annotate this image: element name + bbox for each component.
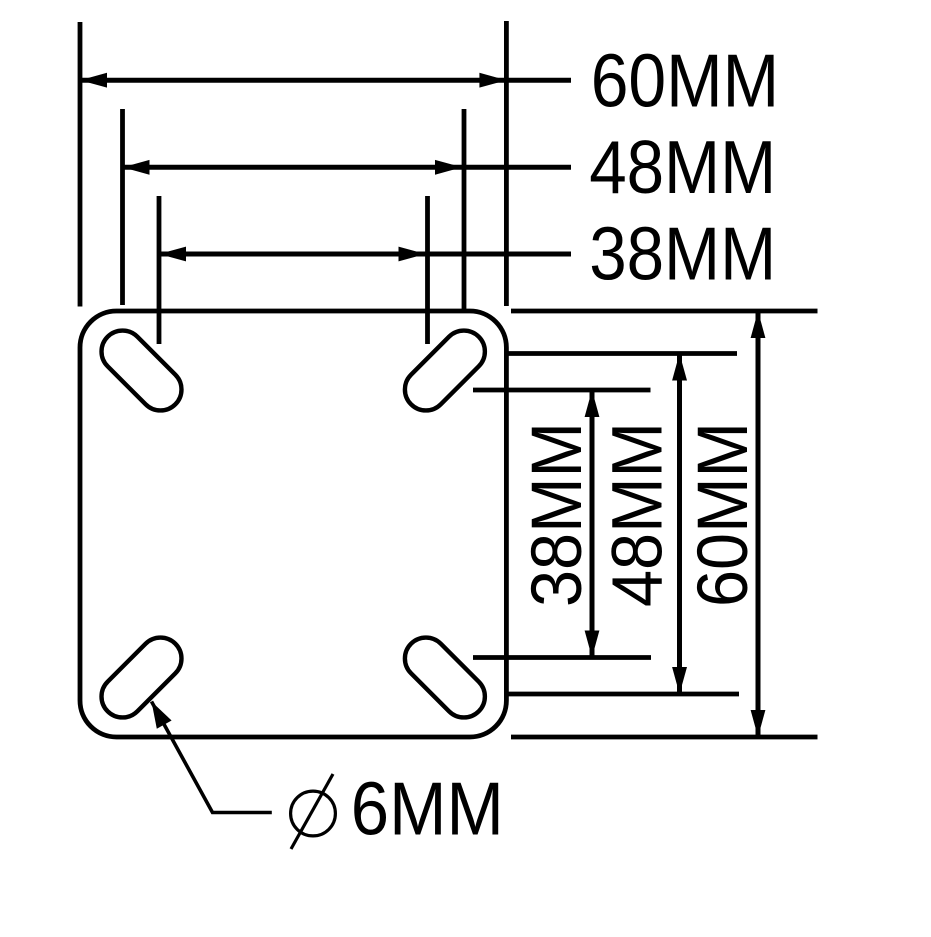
leader line to hole <box>152 702 272 813</box>
svg-text:38MM: 38MM <box>589 212 776 296</box>
diameter symbol slash <box>291 774 333 849</box>
reference line 48MM bottom right <box>507 692 739 697</box>
arrowhead 60MM down <box>751 710 766 737</box>
reference line 60MM bottom right <box>511 735 818 740</box>
dimension line 38MM vertical <box>590 390 595 658</box>
slot hole bottom-right <box>396 629 493 726</box>
dimension line 60MM horizontal <box>80 78 571 83</box>
leader arrowhead <box>152 702 172 729</box>
slot hole bottom-left <box>93 629 190 726</box>
svg-text:48MM: 48MM <box>599 422 678 607</box>
dimension line 48MM vertical <box>677 354 682 695</box>
extension line right 38MM <box>425 196 430 344</box>
diameter symbol circle <box>291 791 336 836</box>
arrowhead 48MM up <box>672 354 687 381</box>
reference line 48MM top right <box>507 351 737 356</box>
dimension line 38MM horizontal <box>159 252 571 257</box>
dimension line 60MM vertical <box>756 311 761 737</box>
arrowhead 48MM down <box>672 667 687 694</box>
arrowhead 48MM right <box>435 160 462 175</box>
arrowhead 38MM right <box>399 247 426 262</box>
reference line 38MM top right <box>473 388 651 393</box>
dimension line 48MM horizontal <box>123 165 572 170</box>
reference line 60MM top right <box>511 309 818 314</box>
plate outline <box>80 311 506 737</box>
arrowhead 48MM left <box>123 160 150 175</box>
extension line right 60MM <box>504 21 509 306</box>
svg-text:60MM: 60MM <box>591 38 780 122</box>
svg-text:38MM: 38MM <box>518 422 597 607</box>
extension line left 38MM <box>157 196 162 344</box>
svg-text:60MM: 60MM <box>684 422 763 607</box>
extension line left 48MM <box>120 109 125 305</box>
arrowhead 38MM up <box>585 390 600 417</box>
extension line right 48MM <box>462 109 467 309</box>
extension line left 60MM <box>78 22 83 307</box>
arrowhead 60MM up <box>751 311 766 338</box>
arrowhead 38MM left <box>159 247 186 262</box>
slot hole top-left <box>93 322 190 419</box>
arrowhead 60MM right <box>479 73 506 88</box>
slot hole top-right <box>396 322 493 419</box>
arrowhead 60MM left <box>80 73 107 88</box>
reference line 38MM bottom right <box>473 655 651 660</box>
arrowhead 38MM down <box>585 631 600 658</box>
svg-text:48MM: 48MM <box>589 125 776 209</box>
svg-text:6MM: 6MM <box>351 767 504 851</box>
